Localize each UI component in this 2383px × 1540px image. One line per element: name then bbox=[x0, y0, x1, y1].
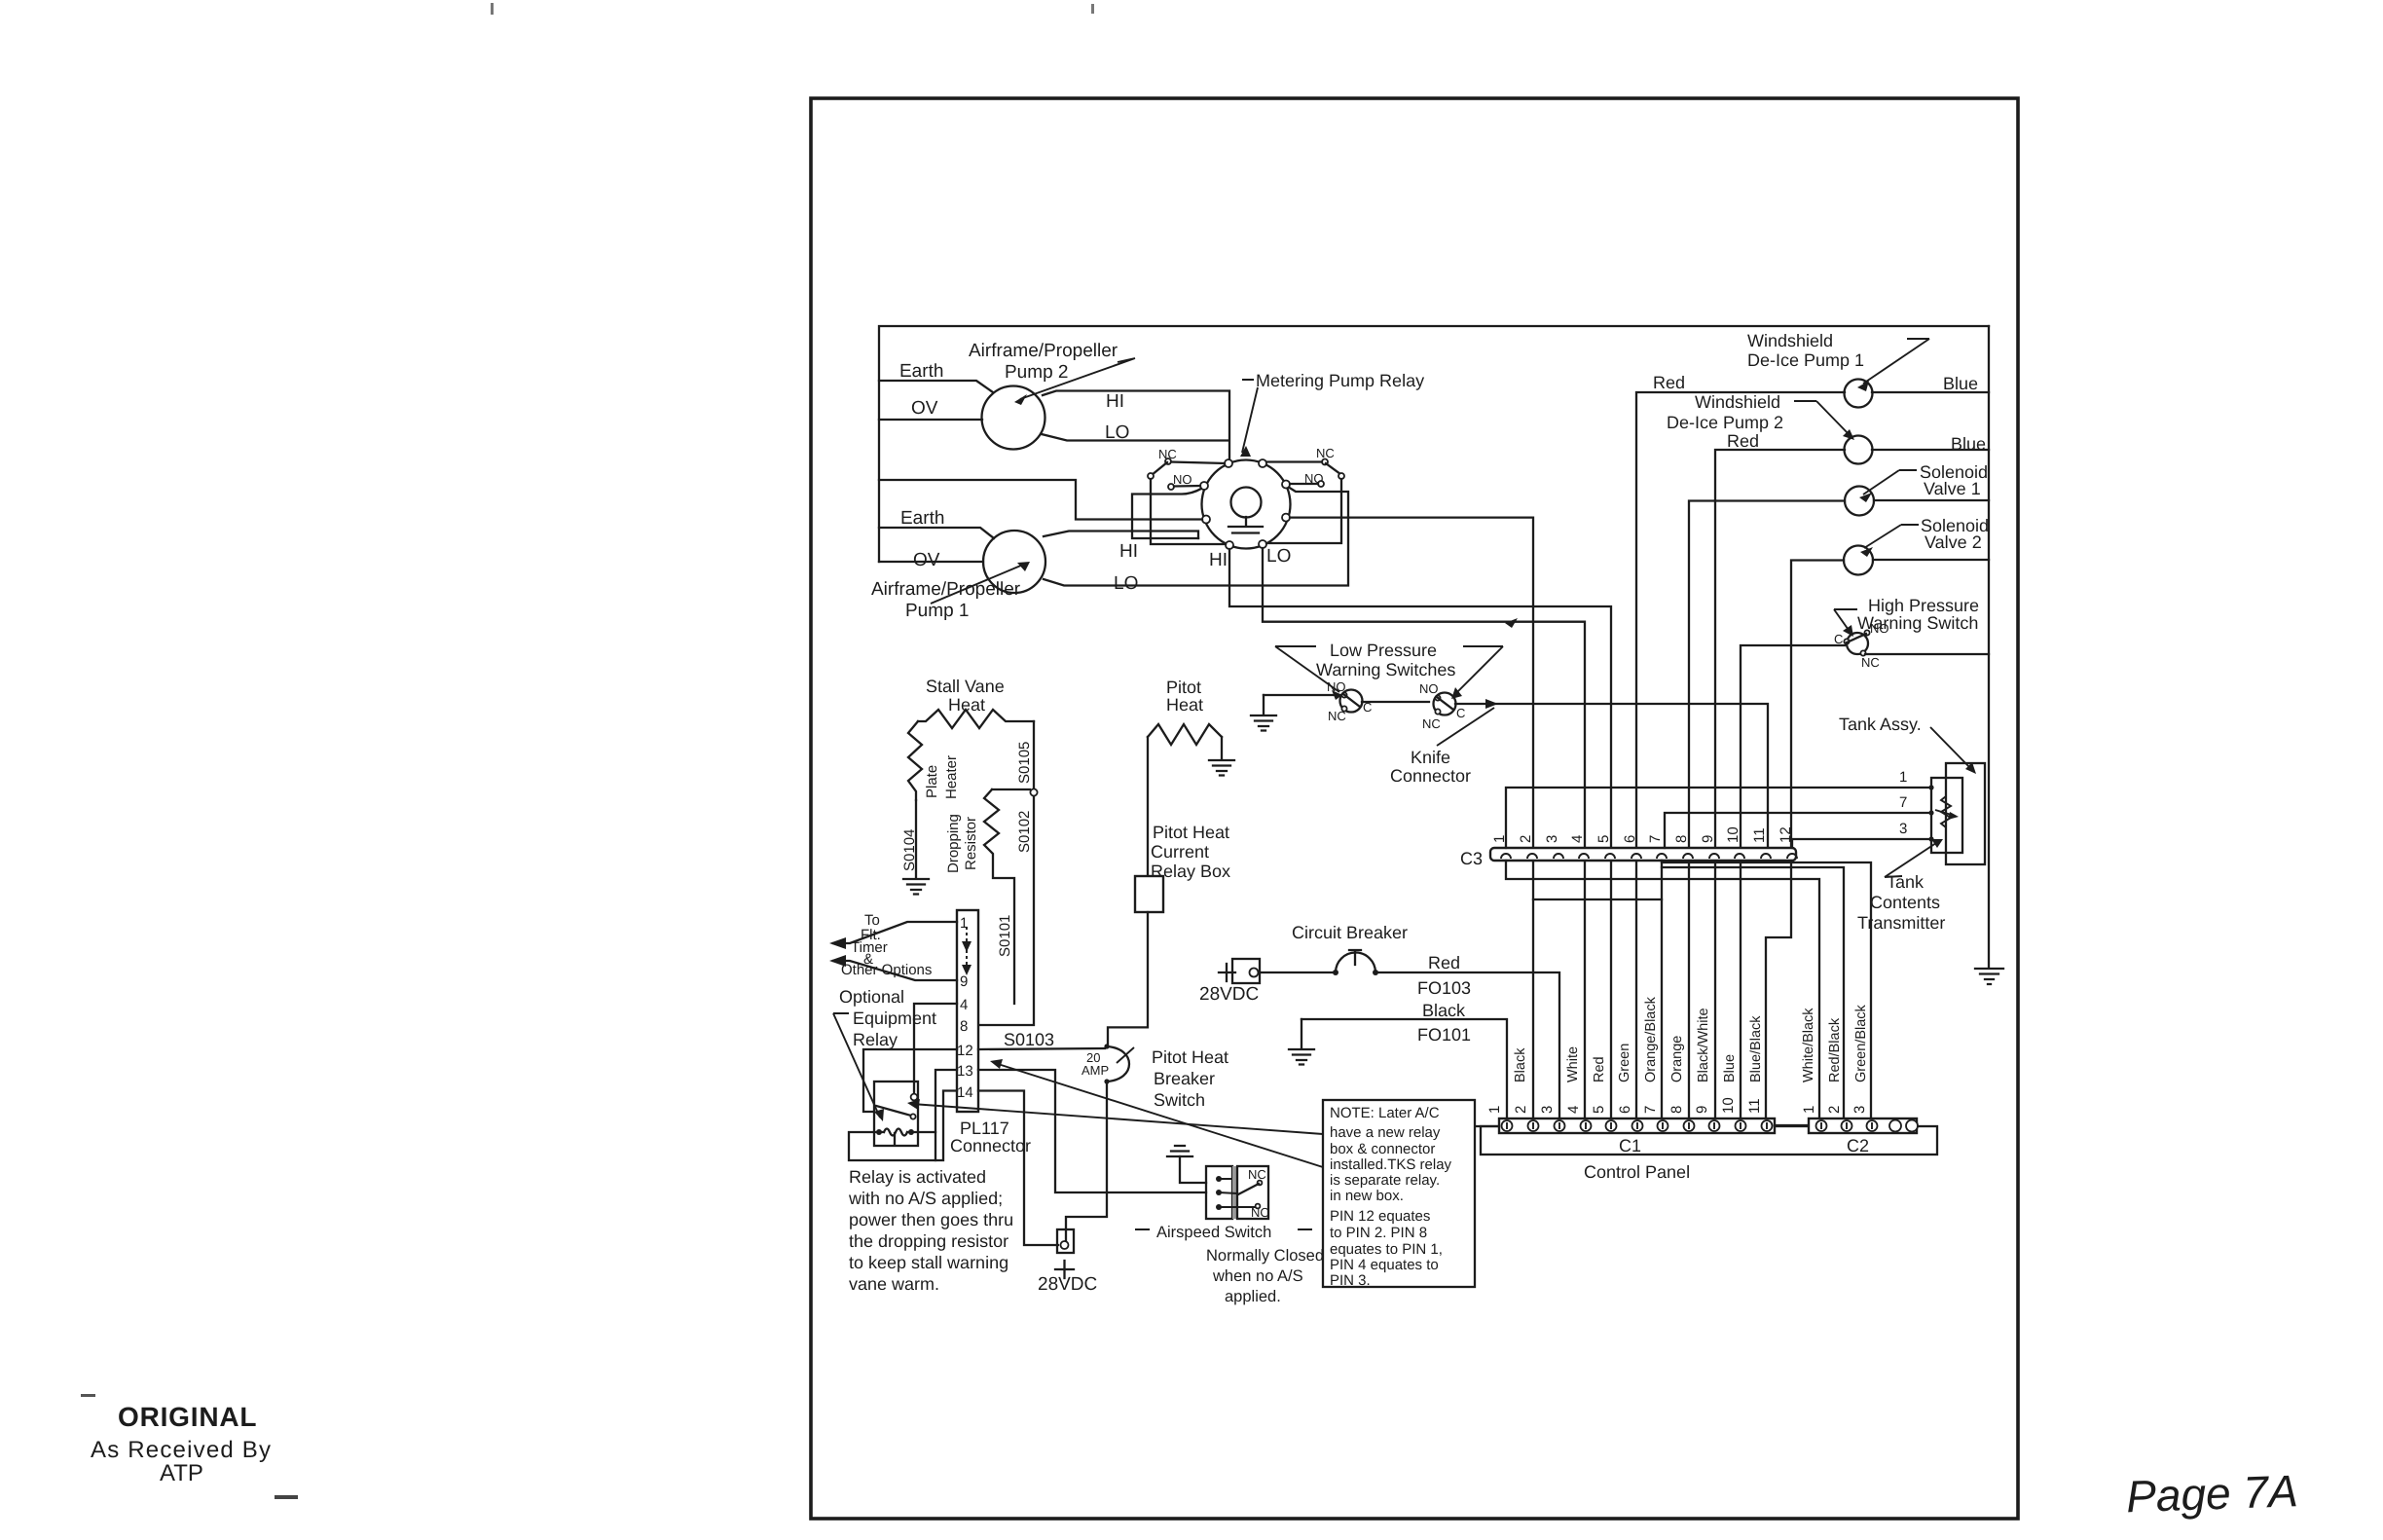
wire: sv1 right bbox=[1874, 499, 1989, 501]
wire: earth feed to relay coil ML bbox=[879, 480, 1202, 520]
svg-text:S0101: S0101 bbox=[997, 915, 1013, 957]
relay pin MR bbox=[1282, 514, 1290, 522]
C1 pin 9 bbox=[1709, 1120, 1720, 1131]
svg-text:6: 6 bbox=[1617, 1106, 1633, 1114]
wire: C3 pin1 to C2 pin1 bbox=[1506, 861, 1819, 1118]
wire: LP1 C to LP2 NO bbox=[1362, 701, 1429, 703]
svg-text:7: 7 bbox=[1642, 1106, 1659, 1114]
svg-text:Valve 2: Valve 2 bbox=[1925, 532, 1982, 552]
svg-text:Switch: Switch bbox=[1154, 1090, 1205, 1110]
wire: pin 13 right to airspeed switch bbox=[978, 1070, 1206, 1192]
box: pitot heat current relay box bbox=[1135, 876, 1163, 912]
svg-text:HI: HI bbox=[1106, 391, 1124, 412]
relay pivot left bbox=[1148, 473, 1154, 479]
tank contents transmitter box bbox=[1931, 778, 1962, 853]
svg-text:3: 3 bbox=[1899, 821, 1907, 837]
svg-text:Windshield: Windshield bbox=[1695, 392, 1780, 412]
PL117 internal arrows bbox=[966, 927, 968, 969]
C3 pin 11 bbox=[1761, 854, 1771, 859]
resistor: pitot heat bbox=[1148, 724, 1222, 745]
svg-text:Equipment: Equipment bbox=[853, 1008, 936, 1028]
relay coil bbox=[1231, 488, 1262, 518]
svg-text:Red: Red bbox=[1428, 953, 1460, 972]
svg-text:5: 5 bbox=[1591, 1106, 1607, 1114]
svg-text:NC: NC bbox=[1422, 716, 1441, 731]
svg-text:LO: LO bbox=[1105, 422, 1129, 443]
svg-text:Green/Black: Green/Black bbox=[1853, 1004, 1869, 1082]
svg-text:Metering Pump Relay: Metering Pump Relay bbox=[1256, 371, 1424, 390]
svg-text:7: 7 bbox=[1647, 835, 1664, 843]
transmitter resistor bbox=[1941, 788, 1951, 839]
wire: stall vane right leg bbox=[1033, 721, 1035, 788]
svg-text:C: C bbox=[1834, 632, 1843, 646]
wire: pitot right leg to ground bbox=[1221, 737, 1223, 759]
transmitter wiper arrow bbox=[1935, 810, 1955, 816]
wire: S0103 pin12 to breaker switch bbox=[978, 1048, 1105, 1049]
label: Airspeed Switch bbox=[1135, 1228, 1312, 1230]
svg-text:14: 14 bbox=[957, 1084, 973, 1101]
breaker: circuit breaker arc bbox=[1336, 952, 1375, 972]
wire: pin 4 left to relay coil terminal bbox=[914, 1004, 957, 1093]
ground: airspeed switch bbox=[1167, 1146, 1192, 1156]
pump: windshield de-ice pump 2 bbox=[1845, 436, 1873, 464]
svg-text:12: 12 bbox=[957, 1043, 973, 1059]
leader right bbox=[1454, 646, 1503, 695]
svg-text:power then goes thru: power then goes thru bbox=[849, 1210, 1013, 1229]
wire: pin12 left bbox=[863, 1049, 957, 1112]
svg-text:Red/Black: Red/Black bbox=[1827, 1017, 1843, 1082]
svg-text:Airspeed Switch: Airspeed Switch bbox=[1156, 1224, 1271, 1241]
svg-text:Breaker: Breaker bbox=[1154, 1069, 1215, 1088]
wire: pump1 OV bbox=[879, 561, 983, 563]
svg-text:Blue: Blue bbox=[1943, 374, 1978, 393]
C3 pin 9 bbox=[1709, 854, 1719, 859]
relay pin UL bbox=[1200, 482, 1208, 490]
wire: hp switch C left to C3 pin10 bbox=[1741, 645, 1845, 1118]
wire: pump1 HI bbox=[1044, 532, 1198, 539]
relay: optional equipment relay box bbox=[874, 1082, 918, 1146]
wire: pump2 OV bbox=[879, 419, 982, 421]
svg-text:3: 3 bbox=[1539, 1106, 1556, 1114]
svg-text:FO101: FO101 bbox=[1417, 1025, 1471, 1045]
leader hp switch bbox=[1834, 609, 1857, 633]
C1 pin 5 bbox=[1606, 1120, 1617, 1131]
svg-text:10: 10 bbox=[1725, 826, 1741, 843]
svg-text:box & connector: box & connector bbox=[1330, 1141, 1435, 1157]
svg-text:Resistor: Resistor bbox=[963, 817, 979, 870]
relay pin TR bbox=[1259, 459, 1266, 467]
leader arrow to pump1 bbox=[931, 565, 1023, 604]
svg-text:Black/White: Black/White bbox=[1696, 1008, 1711, 1082]
wire: pin9 to options arrow bbox=[833, 961, 957, 980]
svg-text:Orange/Black: Orange/Black bbox=[1643, 996, 1659, 1082]
relay pin BL bbox=[1226, 541, 1233, 549]
connector: C1 bar bbox=[1499, 1118, 1775, 1133]
svg-text:Transmitter: Transmitter bbox=[1857, 913, 1945, 933]
svg-text:HI: HI bbox=[1119, 541, 1138, 562]
resistor: dropping resistor bbox=[984, 789, 1014, 1004]
svg-text:Current: Current bbox=[1151, 842, 1209, 862]
svg-text:C3: C3 bbox=[1460, 849, 1483, 868]
C1 pin 3 bbox=[1555, 1120, 1565, 1131]
C1 pin 6 bbox=[1632, 1120, 1643, 1131]
C3 pin 3 bbox=[1554, 854, 1563, 859]
svg-text:PIN 12 equates: PIN 12 equates bbox=[1330, 1208, 1430, 1225]
ground: tank/right bus ground bbox=[1975, 969, 2003, 984]
svg-text:8: 8 bbox=[960, 1018, 968, 1035]
svg-text:13: 13 bbox=[957, 1063, 973, 1080]
svg-text:Warning Switches: Warning Switches bbox=[1316, 660, 1455, 679]
svg-text:when no A/S: when no A/S bbox=[1212, 1267, 1303, 1285]
C3 pin 10 bbox=[1735, 854, 1744, 859]
svg-text:White: White bbox=[1565, 1046, 1581, 1082]
svg-text:Earth: Earth bbox=[899, 361, 943, 382]
ground: LP switches bbox=[1263, 695, 1265, 715]
svg-text:NC: NC bbox=[1248, 1167, 1266, 1182]
svg-text:Relay is activated: Relay is activated bbox=[849, 1167, 986, 1187]
svg-text:installed.TKS relay: installed.TKS relay bbox=[1330, 1156, 1452, 1173]
svg-text:Tank: Tank bbox=[1887, 872, 1925, 892]
wire: pin 14 right to battery bbox=[978, 1091, 1058, 1246]
wire: relay MR out to C1 pin2 bbox=[1290, 518, 1533, 1118]
wire: C3 pin7 down to C1 pin7 bbox=[1661, 861, 1663, 1118]
wire: hp switch NC right bbox=[1865, 653, 1989, 655]
svg-text:NO: NO bbox=[1419, 681, 1439, 696]
leader sv2 bbox=[1864, 525, 1919, 548]
svg-text:S0103: S0103 bbox=[1004, 1030, 1054, 1049]
svg-text:ATP: ATP bbox=[160, 1460, 203, 1486]
wire: red ws pump1 down to C1 pin6 bbox=[1636, 392, 1845, 1118]
svg-text:NC: NC bbox=[1328, 709, 1346, 723]
svg-text:2: 2 bbox=[1518, 835, 1534, 843]
svg-text:Optional: Optional bbox=[839, 987, 904, 1007]
svg-text:to PIN 2. PIN 8: to PIN 2. PIN 8 bbox=[1330, 1225, 1427, 1241]
leader: note to pin 12 bbox=[995, 1063, 1323, 1167]
wire: tank terminal 3 bbox=[1792, 839, 1931, 848]
resistor: plate heater bbox=[908, 721, 922, 800]
switch: low pressure warning switch 1 bbox=[1340, 690, 1363, 713]
wire: pin 13 left leg bbox=[935, 1070, 957, 1160]
tank assy outer box bbox=[1946, 763, 1985, 864]
wire: node to dropping resistor top bbox=[992, 788, 1030, 790]
relay coil wire bbox=[874, 1129, 935, 1136]
svg-text:Red: Red bbox=[1592, 1056, 1607, 1082]
svg-text:AMP: AMP bbox=[1082, 1063, 1109, 1078]
wire: C3 pin12 jog to C1 pin11 bbox=[1766, 861, 1791, 1118]
svg-text:S0102: S0102 bbox=[1016, 811, 1033, 853]
connector: PL117 box bbox=[957, 910, 978, 1112]
wire: earth bus top bbox=[879, 326, 1989, 562]
svg-text:Heat: Heat bbox=[1166, 695, 1203, 715]
wire: ground to LP1 NO bbox=[1264, 694, 1342, 696]
wire: note box stub to panel bbox=[1476, 1125, 1499, 1127]
svg-text:11: 11 bbox=[1751, 827, 1768, 843]
svg-text:FO103: FO103 bbox=[1417, 978, 1471, 998]
wire: pump2 LO bbox=[1042, 434, 1228, 441]
C3 pin 6 bbox=[1631, 854, 1641, 859]
stamp dash bbox=[81, 1394, 95, 1397]
svg-text:vane warm.: vane warm. bbox=[849, 1274, 939, 1294]
svg-text:NO: NO bbox=[1870, 621, 1889, 636]
svg-text:High Pressure: High Pressure bbox=[1868, 596, 1979, 615]
svg-text:Pitot Heat: Pitot Heat bbox=[1153, 823, 1229, 842]
svg-text:with no A/S applied;: with no A/S applied; bbox=[848, 1189, 1003, 1208]
page border frame bbox=[811, 98, 2018, 1519]
svg-text:Orange: Orange bbox=[1669, 1036, 1685, 1082]
wire: relay HI down and right to C3 pin5 bbox=[1229, 549, 1611, 1118]
svg-text:10: 10 bbox=[1720, 1097, 1737, 1114]
svg-text:Pump 2: Pump 2 bbox=[1005, 362, 1068, 383]
note box bbox=[1323, 1100, 1475, 1287]
svg-text:Other Options: Other Options bbox=[841, 962, 932, 978]
svg-text:OV: OV bbox=[911, 398, 938, 419]
svg-text:PL117: PL117 bbox=[960, 1118, 1009, 1138]
svg-text:Connector: Connector bbox=[1390, 766, 1471, 786]
svg-text:NC: NC bbox=[1861, 655, 1880, 670]
switch: low pressure warning switch 2 bbox=[1434, 693, 1456, 715]
svg-text:2: 2 bbox=[1513, 1106, 1529, 1114]
svg-text:4: 4 bbox=[1565, 1106, 1582, 1114]
svg-text:Dropping: Dropping bbox=[945, 814, 962, 873]
resistor: stall vane heat bbox=[918, 710, 1034, 728]
ground: FO101 bbox=[1301, 1019, 1302, 1048]
wire: sv2 left to C3 pin12 bbox=[1791, 561, 1844, 849]
relay blade bbox=[876, 1106, 911, 1116]
relay: metering pump relay body bbox=[1202, 460, 1291, 549]
breaker: 20 AMP pitot heat breaker switch bbox=[1107, 1046, 1129, 1082]
svg-text:Page 7A: Page 7A bbox=[2125, 1465, 2298, 1522]
svg-text:ORIGINAL: ORIGINAL bbox=[118, 1402, 257, 1432]
svg-text:Pitot: Pitot bbox=[1166, 678, 1201, 697]
C1 pin 8 bbox=[1684, 1120, 1695, 1131]
svg-text:S0104: S0104 bbox=[901, 829, 918, 871]
wire: pump2 earth bbox=[879, 381, 993, 392]
relay pin TL bbox=[1225, 459, 1232, 467]
svg-text:8: 8 bbox=[1668, 1106, 1685, 1114]
control panel outline bbox=[1481, 1126, 1937, 1155]
svg-text:Stall Vane: Stall Vane bbox=[926, 677, 1005, 696]
wire: C3 pin7 under-bar to C2 pin3 bbox=[1662, 861, 1871, 1118]
C3 pin 1 bbox=[1501, 854, 1511, 859]
svg-text:OV: OV bbox=[913, 550, 940, 570]
svg-text:is separate relay.: is separate relay. bbox=[1330, 1172, 1440, 1189]
svg-text:Windshield: Windshield bbox=[1747, 331, 1833, 350]
wire: S0102 from node to pin 8 bbox=[979, 796, 1034, 1025]
wire: pitot heat left leg down bbox=[1147, 737, 1149, 876]
C2 pin 1 bbox=[1816, 1120, 1827, 1131]
svg-text:Circuit Breaker: Circuit Breaker bbox=[1292, 923, 1408, 942]
wire: pin 14 left leg U-path under relay bbox=[849, 1091, 957, 1161]
leader pump1 ws bbox=[1863, 339, 1929, 384]
relay pin UR bbox=[1282, 481, 1290, 489]
C3 pin 8 bbox=[1683, 854, 1693, 859]
svg-text:4: 4 bbox=[960, 997, 968, 1013]
wire: pump1 LO to relay NO-right net bbox=[1044, 487, 1348, 586]
svg-text:NOTE: Later A/C: NOTE: Later A/C bbox=[1330, 1105, 1440, 1121]
wire: Red FO103 to C1 pin3 bbox=[1375, 972, 1559, 1118]
connector: C2 bar bbox=[1809, 1118, 1917, 1133]
wire: NO-left to lower run bbox=[1132, 489, 1201, 538]
svg-text:C1: C1 bbox=[1619, 1136, 1641, 1155]
svg-text:Black: Black bbox=[1513, 1047, 1528, 1082]
C2 pin 2 bbox=[1842, 1120, 1852, 1131]
wire: relay box down to breaker jog bbox=[1108, 912, 1148, 1045]
svg-text:applied.: applied. bbox=[1225, 1288, 1281, 1305]
wire: plate heater to ground bbox=[915, 800, 917, 878]
svg-text:Pump 1: Pump 1 bbox=[905, 601, 969, 621]
connector: C3 bar bbox=[1490, 848, 1796, 861]
svg-text:7: 7 bbox=[1899, 794, 1907, 811]
C1 pin 4 bbox=[1581, 1120, 1592, 1131]
wire: tank terminal 7 bbox=[1665, 813, 1931, 848]
leader arrow to pump2 bbox=[1020, 358, 1135, 399]
wire: C1 to C2 bbox=[1775, 1124, 1809, 1126]
ground: pitot heat bbox=[1209, 760, 1234, 776]
svg-text:to keep stall warning: to keep stall warning bbox=[849, 1253, 1008, 1272]
svg-text:HI: HI bbox=[1209, 550, 1228, 570]
svg-text:9: 9 bbox=[1700, 835, 1716, 843]
knife connector arrow on LP line bbox=[1485, 699, 1498, 709]
svg-text:As Received By: As Received By bbox=[91, 1437, 272, 1463]
svg-text:in new box.: in new box. bbox=[1330, 1188, 1404, 1204]
C3 pin 2 bbox=[1527, 854, 1537, 859]
leader sv1 bbox=[1863, 470, 1917, 495]
svg-text:Plate: Plate bbox=[924, 765, 940, 798]
wire: Black FO101 to C1 pin1 bbox=[1301, 1019, 1507, 1118]
switch: airspeed switch body bbox=[1206, 1166, 1232, 1219]
leader: optional equipment relay tick bbox=[833, 1013, 880, 1118]
svg-text:PIN 4 equates to: PIN 4 equates to bbox=[1330, 1257, 1439, 1273]
svg-text:equates to PIN 1,: equates to PIN 1, bbox=[1330, 1241, 1443, 1258]
leader left bbox=[1275, 646, 1339, 692]
wire: jog pin2 to pin7 bbox=[1533, 898, 1662, 900]
svg-text:3: 3 bbox=[1851, 1106, 1868, 1114]
svg-text:Knife: Knife bbox=[1411, 748, 1450, 767]
relay pivot right bbox=[1338, 473, 1344, 479]
battery: 28VDC supply bbox=[1219, 964, 1235, 981]
svg-text:4: 4 bbox=[1569, 835, 1586, 843]
leader: metering pump relay bbox=[1242, 380, 1258, 453]
C3 pin 7 bbox=[1657, 854, 1667, 859]
svg-text:PIN 3.: PIN 3. bbox=[1330, 1272, 1371, 1289]
svg-text:Normally Closed: Normally Closed bbox=[1206, 1247, 1324, 1265]
C2 pin 3 bbox=[1867, 1120, 1878, 1131]
svg-text:28VDC: 28VDC bbox=[1038, 1274, 1097, 1295]
svg-text:3: 3 bbox=[1544, 835, 1560, 843]
svg-text:the dropping resistor: the dropping resistor bbox=[849, 1231, 1008, 1251]
svg-text:8: 8 bbox=[1673, 835, 1690, 843]
svg-text:Black: Black bbox=[1422, 1001, 1466, 1020]
motor: Airframe/Propeller Pump 1 bbox=[983, 531, 1045, 593]
stamp dash 2 bbox=[275, 1495, 298, 1499]
C1 pin 7 bbox=[1658, 1120, 1668, 1131]
svg-text:9: 9 bbox=[1694, 1106, 1710, 1114]
svg-text:Tank Assy.: Tank Assy. bbox=[1839, 715, 1922, 734]
svg-text:Control Panel: Control Panel bbox=[1584, 1162, 1690, 1182]
svg-text:Connector: Connector bbox=[950, 1136, 1031, 1155]
svg-text:White/Black: White/Black bbox=[1801, 1008, 1816, 1082]
wire: sv2 right bbox=[1873, 559, 1989, 561]
wire: battery to breaker bbox=[1259, 972, 1336, 973]
valve: solenoid valve 2 bbox=[1844, 546, 1873, 575]
svg-text:LO: LO bbox=[1266, 546, 1291, 567]
wire: blue ws2 bbox=[1872, 449, 1989, 451]
C1 pin 11 bbox=[1762, 1120, 1773, 1131]
wire: relay LO down and right to C3 pin4 bbox=[1263, 548, 1585, 1118]
svg-text:Red: Red bbox=[1653, 373, 1685, 392]
svg-text:1: 1 bbox=[1899, 769, 1907, 786]
svg-text:Blue: Blue bbox=[1722, 1054, 1738, 1082]
svg-text:28VDC: 28VDC bbox=[1199, 984, 1259, 1005]
svg-text:Heater: Heater bbox=[943, 755, 960, 799]
svg-text:6: 6 bbox=[1622, 835, 1638, 843]
svg-text:Low Pressure: Low Pressure bbox=[1330, 641, 1437, 660]
svg-text:S0105: S0105 bbox=[1016, 742, 1033, 784]
switch: high pressure warning switch bbox=[1847, 633, 1868, 654]
svg-text:1: 1 bbox=[1486, 1106, 1503, 1114]
ground: S0104 bbox=[903, 879, 929, 895]
leader pump2 ws bbox=[1794, 401, 1851, 436]
svg-text:Red: Red bbox=[1727, 431, 1759, 451]
C3 pin 5 bbox=[1605, 854, 1615, 859]
C1 pin 10 bbox=[1736, 1120, 1746, 1131]
wire: red ws pump2 down to C3 pin9 bbox=[1715, 450, 1845, 1118]
svg-text:Earth: Earth bbox=[900, 508, 944, 529]
C2 spare pins bbox=[1889, 1120, 1901, 1132]
wire: C3 pin7 to C2 pin2 bbox=[1662, 867, 1844, 1118]
leader: breaker switch bbox=[1117, 1047, 1134, 1063]
svg-text:Green: Green bbox=[1617, 1044, 1632, 1082]
svg-text:5: 5 bbox=[1595, 835, 1612, 843]
svg-text:Airframe/Propeller: Airframe/Propeller bbox=[969, 341, 1118, 361]
C3 pin 4 bbox=[1579, 854, 1589, 859]
node: S0105 junction bbox=[1030, 788, 1037, 795]
wire: LP2 C out to C3 pin11 bbox=[1455, 704, 1768, 848]
motor: Airframe/Propeller Pump 2 bbox=[982, 386, 1045, 450]
wire: pump1 earth bbox=[879, 528, 994, 538]
leader: knife connector bbox=[1437, 708, 1494, 746]
svg-text:De-Ice Pump 2: De-Ice Pump 2 bbox=[1667, 413, 1783, 432]
wire: right ground bus bbox=[1988, 326, 1990, 967]
svg-text:C2: C2 bbox=[1847, 1136, 1869, 1155]
battery: 28VDC lower bbox=[1057, 1229, 1074, 1253]
wire: blue ws1 bbox=[1872, 391, 1989, 393]
pump: windshield de-ice pump 1 bbox=[1845, 380, 1873, 408]
svg-text:have a new relay: have a new relay bbox=[1330, 1124, 1441, 1141]
relay pin ML bbox=[1202, 516, 1210, 524]
svg-text:NO: NO bbox=[1327, 679, 1346, 694]
svg-text:9: 9 bbox=[960, 973, 968, 990]
svg-text:De-Ice Pump 1: De-Ice Pump 1 bbox=[1747, 350, 1864, 370]
knife connector arrow on LO line bbox=[1505, 618, 1518, 628]
svg-text:Blue/Black: Blue/Black bbox=[1748, 1015, 1764, 1082]
handwriting: Page 7A bbox=[2125, 1465, 2298, 1522]
svg-text:Pitot Heat: Pitot Heat bbox=[1152, 1047, 1228, 1067]
svg-text:NO: NO bbox=[1173, 472, 1192, 487]
wire: sv1 left to C3 pin8 bbox=[1689, 501, 1845, 1119]
leader: note to relay bbox=[912, 1104, 1323, 1134]
svg-text:2: 2 bbox=[1826, 1106, 1843, 1114]
relay pin BR bbox=[1259, 540, 1266, 548]
wire: pin1 to flt timer arrow bbox=[833, 922, 957, 943]
C1 pin 1 bbox=[1502, 1120, 1513, 1131]
C3 pin 12 bbox=[1787, 854, 1797, 859]
svg-text:11: 11 bbox=[1746, 1098, 1763, 1114]
C1 pin 2 bbox=[1528, 1120, 1539, 1131]
svg-text:LO: LO bbox=[1114, 573, 1138, 594]
wire: tank terminal 1 bbox=[1506, 788, 1931, 848]
svg-text:Valve 1: Valve 1 bbox=[1924, 479, 1981, 498]
